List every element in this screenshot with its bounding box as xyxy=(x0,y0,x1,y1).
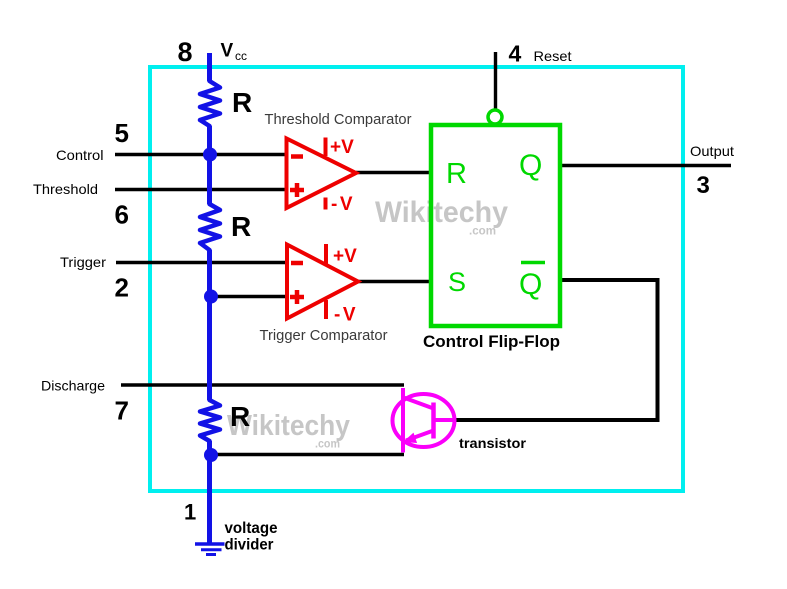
svg-text:Trigger: Trigger xyxy=(60,254,106,270)
svg-text:5: 5 xyxy=(115,118,129,148)
svg-text:R: R xyxy=(230,401,250,432)
svg-text:Threshold Comparator: Threshold Comparator xyxy=(265,111,412,128)
svg-text:8: 8 xyxy=(178,37,193,67)
svg-text:cc: cc xyxy=(235,49,247,63)
svg-text:R: R xyxy=(231,211,251,242)
svg-text:7: 7 xyxy=(115,396,129,426)
svg-text:+V: +V xyxy=(330,137,354,158)
svg-text:-V: -V xyxy=(334,305,358,326)
svg-text:Threshold: Threshold xyxy=(33,181,98,197)
svg-text:-V: -V xyxy=(331,194,355,215)
svg-text:R: R xyxy=(232,87,252,118)
svg-text:Discharge: Discharge xyxy=(41,378,105,394)
svg-text:V: V xyxy=(221,41,234,62)
svg-text:voltage: voltage xyxy=(225,520,278,537)
svg-text:Reset: Reset xyxy=(534,48,572,64)
svg-text:4: 4 xyxy=(509,41,522,67)
svg-text:Q: Q xyxy=(519,149,542,182)
svg-text:transistor: transistor xyxy=(459,435,527,451)
svg-text:3: 3 xyxy=(697,172,710,199)
svg-text:Wikitechy: Wikitechy xyxy=(375,196,508,229)
svg-text:.com: .com xyxy=(315,439,340,451)
svg-text:R: R xyxy=(446,158,467,190)
svg-text:.com: .com xyxy=(469,226,496,238)
svg-text:S: S xyxy=(448,267,466,297)
svg-text:Trigger Comparator: Trigger Comparator xyxy=(260,327,388,344)
svg-text:Output: Output xyxy=(690,143,734,159)
svg-text:divider: divider xyxy=(225,537,274,554)
svg-text:6: 6 xyxy=(115,200,129,230)
svg-text:Q: Q xyxy=(519,268,542,301)
svg-text:Control Flip-Flop: Control Flip-Flop xyxy=(423,332,560,351)
svg-text:Control: Control xyxy=(56,147,104,163)
svg-text:+V: +V xyxy=(333,246,357,267)
svg-text:2: 2 xyxy=(115,273,129,303)
svg-text:1: 1 xyxy=(184,500,196,525)
